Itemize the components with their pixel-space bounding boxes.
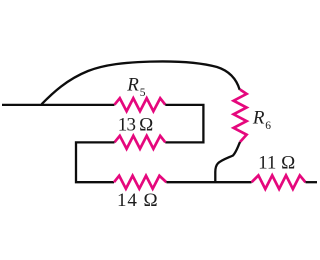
wire: top bypass curve from node A to top of R6	[42, 61, 240, 104]
svg-text:R: R	[252, 108, 265, 129]
wire: lead from bottom of R6 down to junction node B	[215, 142, 240, 182]
resistor R5 zigzag	[115, 98, 166, 111]
wire: left input lead (node A)	[2, 104, 115, 106]
svg-text:14 Ω: 14 Ω	[117, 190, 158, 211]
svg-text:13 Ω: 13 Ω	[118, 115, 153, 136]
resistor 14 ohm zigzag	[114, 176, 166, 189]
svg-text:5: 5	[140, 87, 146, 99]
svg-text:11 Ω: 11 Ω	[258, 152, 295, 173]
wire: right bracket from R5 down to 13-ohm row	[165, 105, 203, 142]
resistor R6 vertical zigzag	[234, 90, 247, 143]
wire: left bracket from 13-ohm row down to 14-ohm row	[76, 142, 115, 182]
wire: bottom rail from 14-ohm to 11-ohm (junction node B at x=215)	[166, 181, 251, 183]
wire: right output lead	[306, 181, 318, 183]
svg-text:6: 6	[265, 120, 271, 132]
svg-text:R: R	[126, 75, 139, 96]
resistor 13 ohm zigzag	[115, 136, 166, 149]
resistor 11 ohm zigzag	[252, 175, 306, 189]
